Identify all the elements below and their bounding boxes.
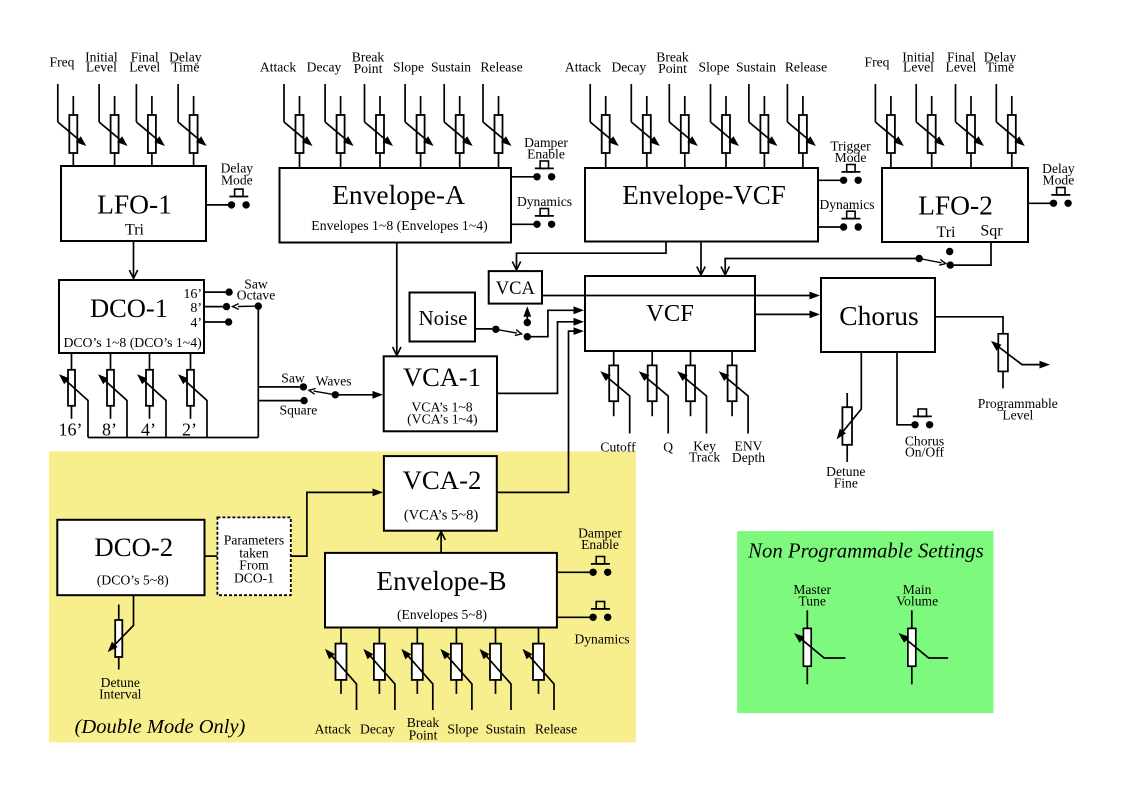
pot VCF control at x=732.1 [719,351,748,434]
switch Dynamics (Envelope-B) [557,602,630,647]
node Square [258,397,317,418]
pot VCF control at x=690.5 [677,351,706,434]
switch Noise/VCA select lever [496,329,522,335]
svg-text:Dynamics: Dynamics [517,194,572,209]
pot Attack (Envelope-B) [315,628,357,737]
label Key Track [689,438,720,464]
wire Sqr output [947,242,991,269]
node VCA feed [523,306,531,326]
pot Attack (Envelope-A) [260,60,313,169]
svg-text:Mode: Mode [221,173,253,188]
svg-text:Release: Release [785,60,827,75]
pot Initial Level (LFO-1) [85,50,127,167]
svg-text:Level: Level [86,60,117,75]
label Q [663,439,673,454]
switch Damper Enable (Envelope-B) [557,526,622,577]
block LFO-2 [882,168,1028,242]
node Tri (LFO-2) [946,248,953,255]
svg-text:4’: 4’ [190,316,202,331]
pot Programmable Level [978,334,1058,423]
pot Detune Interval [99,595,141,701]
svg-text:LFO-1: LFO-1 [97,189,172,220]
wire Chorus to Programmable Level pot [935,317,1003,334]
svg-text:Time: Time [171,60,199,75]
svg-text:VCA-1: VCA-1 [403,362,481,392]
block VCA-2 [384,456,497,531]
pot Release (Envelope-A) [480,60,522,169]
svg-text:Point: Point [658,61,687,76]
svg-text:DCO’s 1~8 (DCO’s 1~4): DCO’s 1~8 (DCO’s 1~4) [63,335,201,351]
wire Waves to VCA-1 [335,391,383,399]
switch Saw Octave selector [204,277,275,326]
svg-text:Enable: Enable [581,537,619,552]
svg-text:VCA: VCA [496,279,536,299]
wire switch to VCF input 1 [527,306,584,336]
wire VCA-1 to VCF input 2 [497,318,584,394]
pot 8& footage (DCO-1) [98,353,127,440]
svg-text:Depth: Depth [732,450,765,465]
svg-text:Tri: Tri [937,224,957,241]
svg-text:Level: Level [1002,407,1033,422]
svg-text:VCA-2: VCA-2 [403,465,482,495]
label Double Mode Only [75,716,246,738]
svg-text:DCO-2: DCO-2 [94,532,173,562]
label Cutoff [600,439,636,454]
svg-text:Mode: Mode [1043,173,1075,188]
svg-text:Sqr: Sqr [980,223,1003,240]
pot Freq (LFO-2) [865,55,904,169]
switch Chorus On/Off [897,352,944,460]
svg-text:Decay: Decay [360,722,395,737]
svg-text:Q: Q [663,439,673,454]
node Saw [258,371,307,391]
pot 16 footage (DCO-1) [59,353,89,440]
pot Break Point (Envelope-VCF) [656,50,698,169]
svg-text:Volume: Volume [896,594,938,609]
block Envelope-B [325,553,557,628]
wire Parameters box to VCA-2 [291,489,383,557]
pot Main Volume [896,582,948,684]
svg-text:On/Off: On/Off [905,445,944,460]
svg-text:LFO-2: LFO-2 [918,190,993,221]
pot Freq (LFO-1) [50,55,87,167]
pot Sustain (Envelope-VCF) [736,60,777,169]
svg-text:Point: Point [409,728,438,743]
svg-text:Noise: Noise [419,306,468,330]
svg-text:Enable: Enable [527,147,565,162]
label Non Programmable Settings [747,541,984,563]
pot Slope (Envelope-VCF) [699,60,739,169]
svg-text:Slope: Slope [447,722,478,737]
wire Envelope-VCF to VCF [697,242,705,276]
svg-text:Tri: Tri [125,222,145,239]
svg-text:Tune: Tune [798,594,825,609]
svg-text:Track: Track [689,450,720,465]
svg-text:8’: 8’ [102,420,117,440]
svg-text:8’: 8’ [190,301,202,316]
wire Envelope-B to VCA-2 [437,532,445,553]
svg-text:Envelope-B: Envelope-B [376,566,506,596]
svg-text:Time: Time [986,60,1014,75]
pot Detune Fine [826,352,865,491]
block Envelope-A [280,168,512,243]
wire Envelope-A to VCA-1 [393,243,401,356]
pot VCF control at x=613.7 [600,351,629,434]
pot Final Level (LFO-1) [129,50,165,167]
block DCO-2 [57,520,204,595]
svg-text:Non Programmable Settings: Non Programmable Settings [747,541,984,563]
non-programmable settings background (green) [737,531,993,713]
block DCO-1 [59,280,204,353]
pot Break Point (Envelope-B) [401,628,439,743]
svg-text:Attack: Attack [565,60,601,75]
svg-text:Decay: Decay [611,60,646,75]
wire VCA-2 to VCF input 3 [497,327,584,492]
svg-text:Slope: Slope [699,60,730,75]
wire Envelope-VCF to VCA [512,242,666,271]
svg-text:Interval: Interval [99,687,141,702]
label ENV Depth [732,439,765,465]
wire octave selector down to waves bus [257,306,259,437]
pot Decay (Envelope-B) [360,628,395,737]
svg-text:16’: 16’ [183,287,202,302]
block Envelope-VCF [585,168,818,242]
svg-text:Waves: Waves [316,374,352,389]
svg-text:Chorus: Chorus [839,300,918,331]
double-mode region background (yellow) [49,451,636,742]
svg-text:Sustain: Sustain [431,60,471,75]
wire DCO-2 to Parameters box [205,555,218,557]
wire LFO-1 to DCO-1 [129,241,137,279]
svg-text:(Double Mode Only): (Double Mode Only) [75,716,246,738]
svg-text:Dynamics: Dynamics [819,197,874,212]
pot Attack (Envelope-VCF) [565,60,619,169]
svg-text:Sustain: Sustain [736,60,776,75]
svg-text:(VCA’s 5~8): (VCA’s 5~8) [404,508,478,524]
wire footage bus [88,437,258,439]
switch LFO-2 wave selector [916,255,946,265]
pot Slope (Envelope-B) [440,628,478,737]
pot Break Point (Envelope-A) [352,50,393,169]
pot Slope (Envelope-A) [393,60,434,169]
wire Noise output [475,326,499,333]
svg-text:Level: Level [903,60,934,75]
svg-text:Freq: Freq [50,55,75,70]
svg-text:Level: Level [946,60,977,75]
svg-text:Release: Release [480,60,522,75]
pot Final Level (LFO-2) [946,50,984,169]
wire VCF to Chorus [755,311,820,319]
block VCA [489,271,542,304]
svg-text:Dynamics: Dynamics [574,632,629,647]
svg-text:Release: Release [535,722,577,737]
switch Waves selector [309,374,352,399]
pot 2& footage (DCO-1) [178,353,207,440]
block VCA-1 [384,356,497,431]
switch Damper Enable (Envelope-A) [511,135,568,181]
switch Delay Mode (LFO-2) [1028,161,1075,207]
pot Decay (Envelope-VCF) [611,60,659,169]
pot Delay Time (LFO-2) [984,50,1025,169]
svg-text:Square: Square [280,403,318,418]
svg-text:Fine: Fine [834,476,858,491]
svg-text:Sustain: Sustain [486,722,526,737]
svg-text:Mode: Mode [835,150,867,165]
pot Sustain (Envelope-A) [431,60,473,169]
svg-text:Attack: Attack [315,722,351,737]
svg-text:Envelope-A: Envelope-A [332,179,465,210]
node VCF feed [524,333,531,340]
switch Dynamics (Envelope-A) [511,194,572,228]
svg-text:4’: 4’ [141,420,156,440]
block Noise [410,293,476,342]
svg-text:2’: 2’ [182,420,197,440]
svg-text:DCO-1: DCO-1 [234,571,274,586]
svg-text:Slope: Slope [393,60,424,75]
svg-text:Point: Point [354,61,383,76]
switch Dynamics (Envelope-VCF) [818,197,875,231]
svg-text:Saw: Saw [281,371,305,386]
wire VCA to Chorus [542,292,820,300]
pot 4& footage (DCO-1) [137,353,166,440]
block Parameters taken From DCO-1 [217,517,290,595]
block LFO-1 [61,166,206,241]
svg-text:Envelope-VCF: Envelope-VCF [622,180,785,210]
svg-text:Level: Level [129,60,160,75]
svg-text:Decay: Decay [307,60,342,75]
pot Release (Envelope-VCF) [785,60,827,169]
svg-text:Octave: Octave [237,288,276,303]
switch Trigger Mode (Envelope-VCF) [818,139,871,185]
svg-text:16’: 16’ [59,420,83,440]
pot Initial Level (LFO-2) [902,50,944,169]
pot Sustain (Envelope-B) [480,628,526,737]
svg-text:Attack: Attack [260,60,296,75]
svg-text:(DCO’s 5~8): (DCO’s 5~8) [97,573,169,589]
block Chorus [821,278,935,352]
pot Delay Time (LFO-1) [169,50,207,167]
svg-text:Freq: Freq [865,55,890,70]
svg-text:DCO-1: DCO-1 [90,293,168,323]
svg-text:VCF: VCF [646,300,694,327]
block VCF [585,276,755,351]
wire LFO-2 selector to VCF [721,259,919,276]
pot Release (Envelope-B) [523,628,578,737]
svg-text:Cutoff: Cutoff [600,439,636,454]
pot VCF control at x=652.2 [639,351,668,434]
svg-text:(VCA’s 1~4): (VCA’s 1~4) [407,412,477,428]
switch Delay Mode (LFO-1) [206,161,253,209]
pot Master Tune [793,582,845,684]
svg-text:(Envelopes 5~8): (Envelopes 5~8) [397,607,487,623]
pot Decay (Envelope-A) [307,60,354,169]
svg-text:Envelopes 1~8 (Envelopes 1~4): Envelopes 1~8 (Envelopes 1~4) [311,218,487,234]
